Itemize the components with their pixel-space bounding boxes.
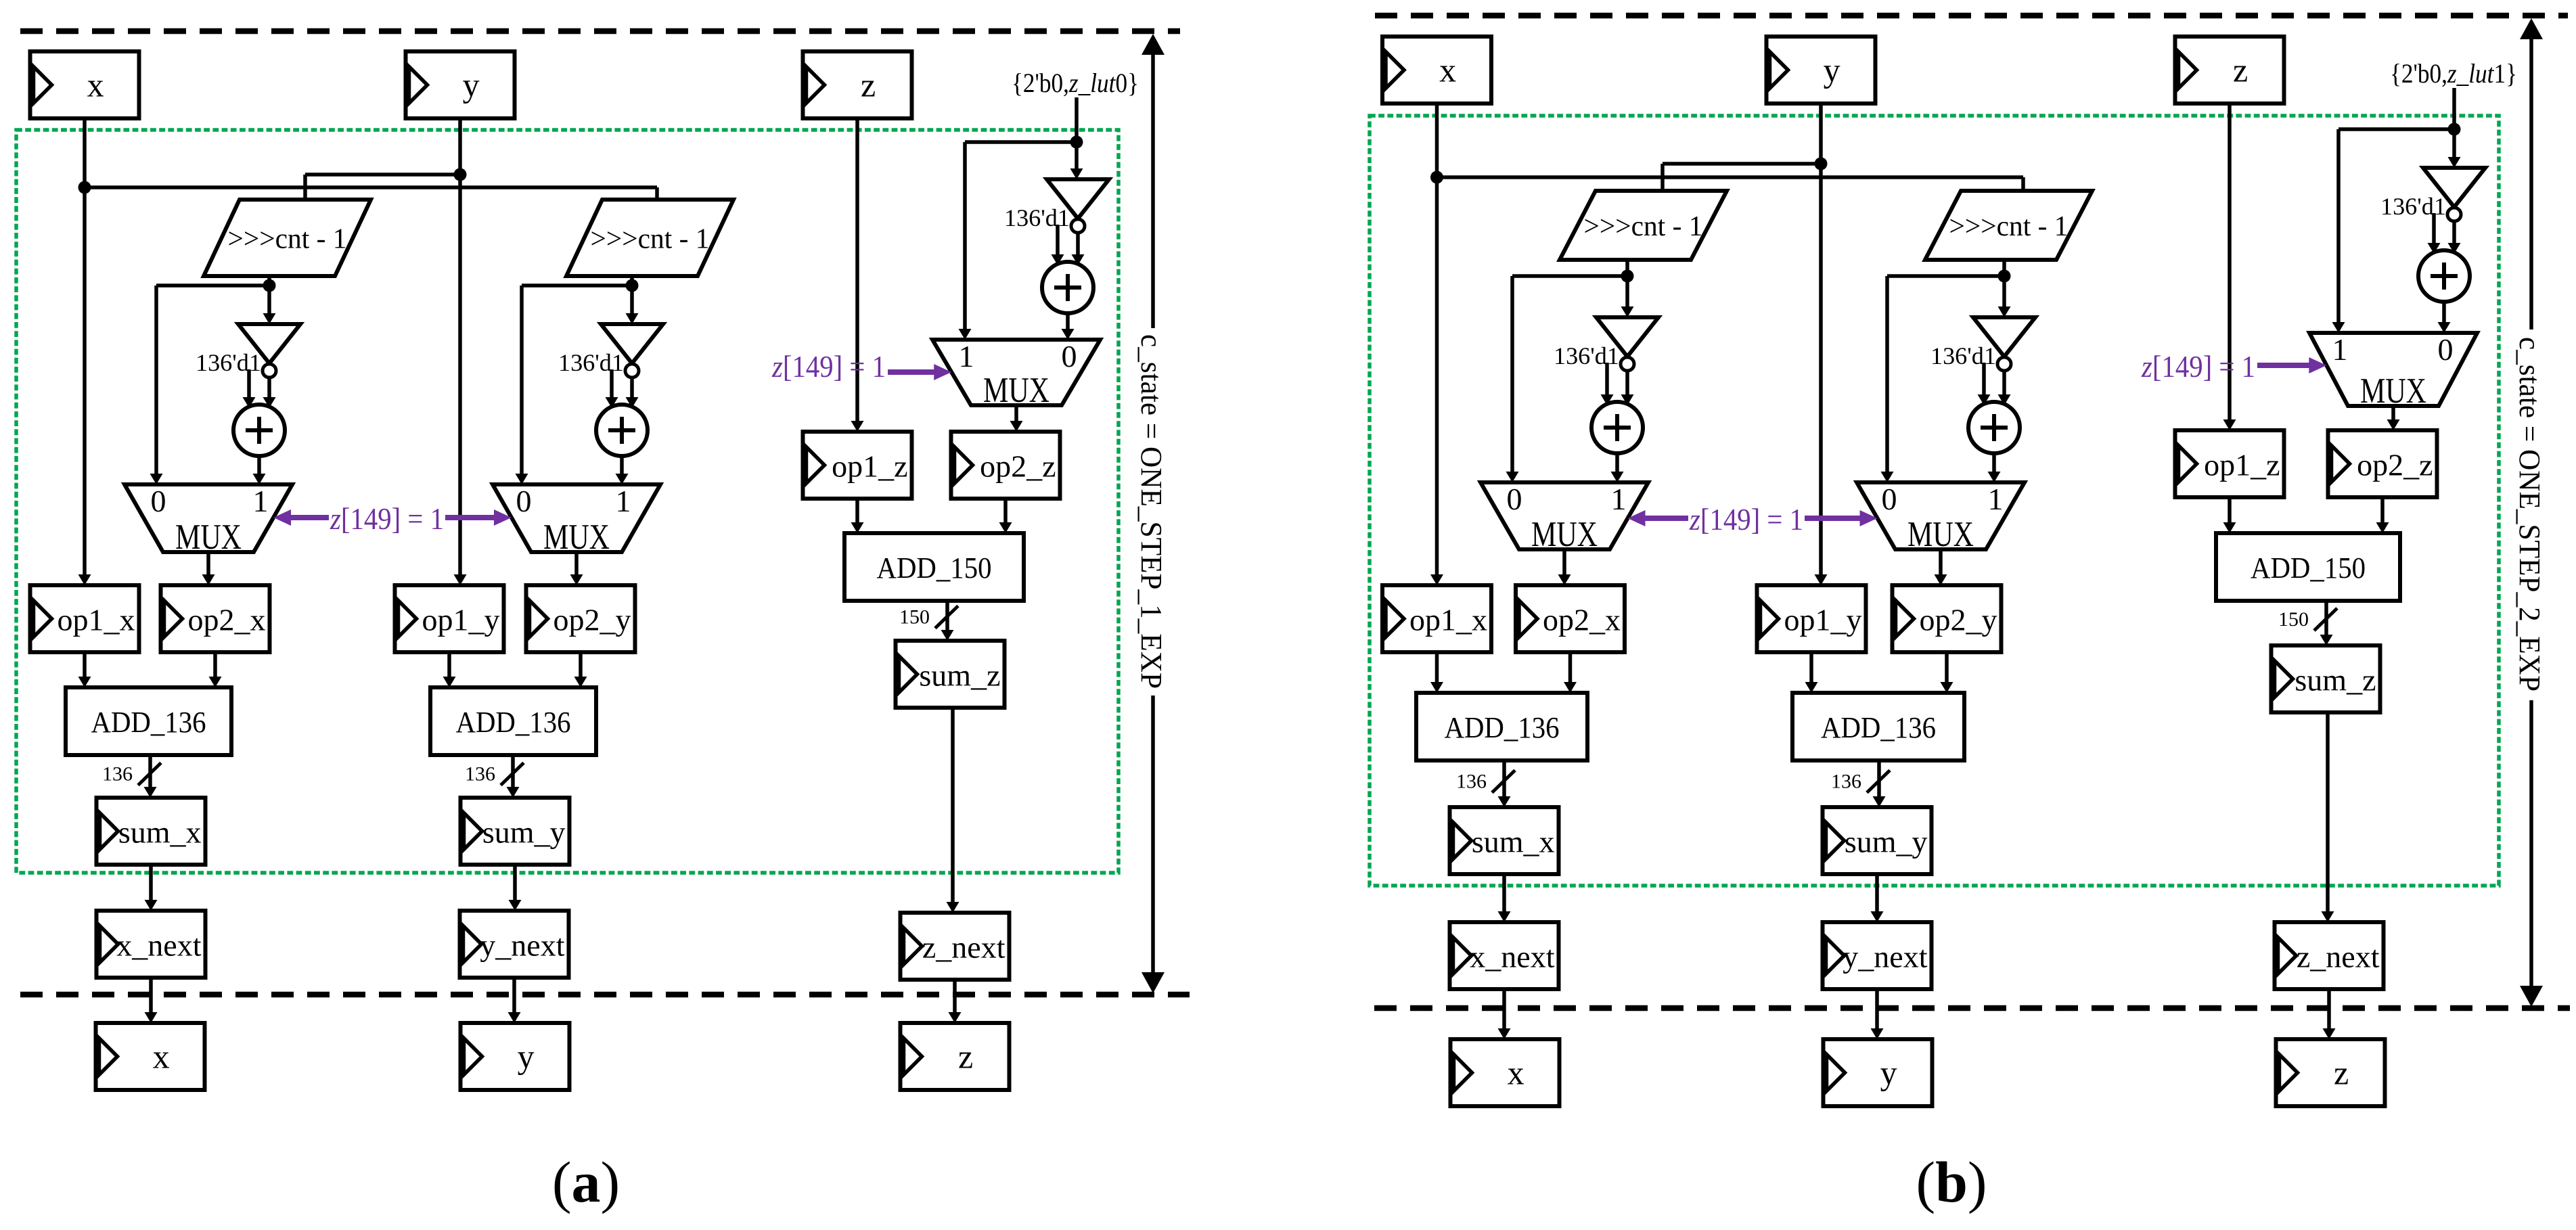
svg-text:y_next: y_next: [480, 928, 564, 963]
svg-text:sum_z: sum_z: [2295, 663, 2376, 698]
svg-text:1: 1: [2332, 332, 2348, 367]
svg-text:op2_z: op2_z: [980, 449, 1056, 484]
svg-text:op1_x: op1_x: [58, 603, 135, 637]
svg-text:0: 0: [1882, 482, 1897, 516]
svg-text:y: y: [518, 1038, 535, 1076]
svg-text:x: x: [1508, 1054, 1524, 1092]
svg-text:136'd1: 136'd1: [1930, 342, 1996, 369]
svg-text:c_state = ONE_STEP_1_EXP: c_state = ONE_STEP_1_EXP: [1135, 334, 1168, 689]
svg-text:z_next: z_next: [922, 930, 1005, 965]
svg-text:op2_x: op2_x: [1543, 603, 1621, 637]
svg-text:136'd1: 136'd1: [558, 349, 624, 376]
svg-text:136: 136: [465, 763, 495, 785]
svg-text:op2_y: op2_y: [1920, 603, 1997, 637]
svg-text:z: z: [2334, 1054, 2349, 1092]
svg-text:x: x: [87, 66, 104, 104]
svg-text:sum_z: sum_z: [919, 658, 1000, 693]
svg-text:z_next: z_next: [2297, 940, 2380, 974]
svg-text:ADD_136: ADD_136: [1445, 711, 1560, 744]
svg-text:{2'b0,z_lut1}: {2'b0,z_lut1}: [2390, 58, 2517, 89]
svg-text:136'd1: 136'd1: [1554, 342, 1619, 369]
svg-text:>>>cnt - 1: >>>cnt - 1: [228, 224, 347, 255]
svg-text:op1_z: op1_z: [2204, 448, 2280, 482]
svg-text:MUX: MUX: [1907, 515, 1974, 554]
svg-text:136'd1: 136'd1: [1004, 204, 1070, 231]
svg-text:0: 0: [2438, 332, 2454, 367]
svg-text:MUX: MUX: [2360, 371, 2426, 411]
svg-text:sum_y: sum_y: [482, 815, 566, 850]
svg-text:>>>cnt - 1: >>>cnt - 1: [1949, 211, 2069, 242]
svg-text:sum_y: sum_y: [1845, 825, 1928, 859]
svg-text:1: 1: [616, 484, 631, 518]
svg-text:z[149] = 1: z[149] = 1: [2141, 350, 2255, 384]
svg-text:x_next: x_next: [1470, 940, 1554, 974]
svg-text:y: y: [1880, 1054, 1897, 1092]
svg-text:sum_x: sum_x: [1472, 825, 1555, 859]
svg-text:(a): (a): [552, 1149, 620, 1214]
svg-text:0: 0: [151, 484, 166, 518]
svg-text:x: x: [153, 1038, 170, 1076]
svg-text:sum_x: sum_x: [118, 815, 202, 850]
svg-text:0: 0: [1507, 482, 1522, 516]
svg-text:>>>cnt - 1: >>>cnt - 1: [1584, 211, 1703, 242]
svg-text:>>>cnt - 1: >>>cnt - 1: [591, 224, 710, 255]
svg-text:y_next: y_next: [1843, 940, 1927, 974]
svg-text:136: 136: [1456, 771, 1487, 793]
svg-text:150: 150: [899, 606, 930, 629]
svg-text:136: 136: [1831, 771, 1861, 793]
svg-text:ADD_136: ADD_136: [91, 706, 206, 739]
svg-text:ADD_150: ADD_150: [877, 551, 992, 585]
svg-text:MUX: MUX: [543, 518, 610, 557]
svg-text:0: 0: [516, 484, 532, 518]
svg-text:z: z: [861, 66, 876, 104]
svg-text:150: 150: [2278, 608, 2309, 631]
svg-text:ADD_136: ADD_136: [456, 706, 571, 739]
svg-text:op1_y: op1_y: [422, 603, 500, 637]
svg-text:op1_x: op1_x: [1409, 603, 1487, 637]
svg-text:{2'b0,z_lut0}: {2'b0,z_lut0}: [1012, 68, 1139, 98]
svg-text:ADD_136: ADD_136: [1821, 711, 1936, 744]
svg-text:136: 136: [102, 763, 133, 785]
svg-text:136'd1: 136'd1: [2380, 193, 2446, 220]
svg-text:1: 1: [1988, 482, 2004, 516]
svg-text:z[149] = 1: z[149] = 1: [1689, 503, 1803, 537]
svg-text:z[149] = 1: z[149] = 1: [771, 350, 886, 384]
svg-text:y: y: [1824, 51, 1840, 89]
svg-text:1: 1: [959, 339, 974, 373]
svg-text:op2_x: op2_x: [188, 603, 266, 637]
svg-text:op2_z: op2_z: [2357, 448, 2433, 482]
svg-text:0: 0: [1062, 339, 1077, 373]
svg-text:op1_z: op1_z: [832, 449, 907, 484]
svg-text:z: z: [2233, 51, 2248, 89]
svg-text:x_next: x_next: [116, 928, 201, 963]
svg-text:z: z: [958, 1038, 973, 1076]
svg-text:op1_y: op1_y: [1784, 603, 1862, 637]
svg-text:op2_y: op2_y: [553, 603, 631, 637]
svg-text:ADD_150: ADD_150: [2251, 551, 2366, 585]
svg-text:MUX: MUX: [175, 518, 242, 557]
svg-text:MUX: MUX: [1531, 515, 1598, 554]
svg-text:MUX: MUX: [983, 371, 1049, 410]
svg-text:1: 1: [1611, 482, 1627, 516]
svg-text:136'd1: 136'd1: [196, 349, 261, 376]
svg-text:y: y: [463, 66, 480, 104]
svg-text:z[149] = 1: z[149] = 1: [330, 502, 444, 536]
svg-text:x: x: [1439, 51, 1456, 89]
svg-text:1: 1: [253, 484, 269, 518]
svg-text:(b): (b): [1916, 1149, 1987, 1214]
svg-text:c_state = ONE_STEP_2_EXP: c_state = ONE_STEP_2_EXP: [2513, 337, 2546, 691]
